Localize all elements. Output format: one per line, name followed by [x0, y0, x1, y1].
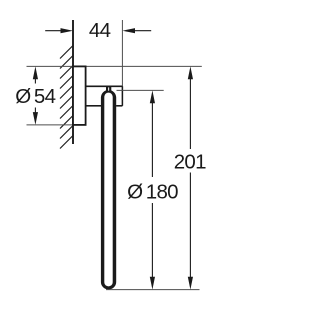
svg-text:201: 201	[174, 151, 206, 174]
svg-text:44: 44	[89, 19, 111, 42]
svg-text:Ø 180: Ø 180	[127, 181, 178, 204]
towel ring inner contour	[104, 93, 112, 287]
wall hatching	[60, 46, 73, 149]
extension line Ø180 top	[117, 89, 164, 91]
towel ring outer contour	[101, 90, 116, 290]
wall plate (rosette, side view)	[73, 66, 86, 125]
dimension Ø54: line and arrows	[34, 72, 36, 84]
dimension 44: left arrow	[45, 30, 62, 32]
holder arm top edge	[86, 85, 123, 87]
dimension 201: line and arrows	[189, 72, 191, 149]
extension line, front of holder (right ref of 44 dim)	[121, 20, 123, 106]
holder arm front face	[121, 86, 123, 106]
svg-text:Ø 54: Ø 54	[15, 85, 55, 108]
wall face line	[72, 20, 74, 144]
dimension Ø180: line and arrows	[151, 96, 153, 177]
extension line bottom (ring bottom tangent, shared by Ø180 and 201)	[106, 289, 200, 291]
extension line bottom of plate (Ø54 bottom)	[27, 124, 74, 126]
dimension 44: right arrow	[133, 30, 151, 32]
ring top fixing nubs	[106, 87, 111, 91]
extension line top (Ø54 top / plate top level, continues right for 201)	[27, 65, 74, 67]
holder arm bottom edge segments	[86, 105, 102, 107]
